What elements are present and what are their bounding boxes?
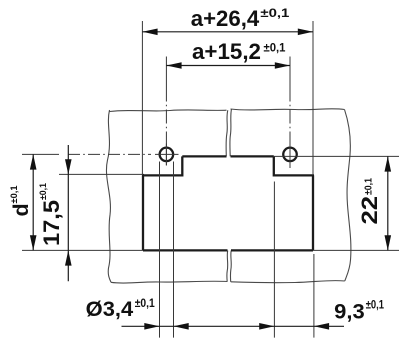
label 17,5	[38, 182, 64, 246]
panel middle break line bottom pair	[226, 251, 229, 282]
label diameter 3,4	[86, 296, 155, 321]
label d	[9, 185, 33, 217]
label 22	[357, 178, 382, 225]
panel left break line	[106, 110, 111, 282]
bottom extension line to left (for d and 17,5)	[22, 249, 143, 251]
hole tangent extension line right (for diameter)	[173, 162, 175, 338]
svg-text:±0,1: ±0,1	[38, 182, 49, 200]
extension line a+26,4 left	[141, 21, 143, 175]
svg-text:a+15,2: a+15,2	[192, 39, 261, 64]
svg-text:Ø3,4: Ø3,4	[86, 298, 134, 321]
svg-text:17,5: 17,5	[39, 200, 64, 246]
hole right crosshair	[289, 144, 291, 167]
cutout step right and lower-right top edge and right edge	[274, 156, 314, 250]
cutout bottom edge (left of break)	[143, 249, 228, 251]
label 9,3	[334, 298, 384, 324]
vertical center line left hole (dash-dot)	[165, 57, 167, 166]
cutout left edge, lower-left top edge and left step	[142, 156, 182, 250]
svg-text:±0,1: ±0,1	[264, 40, 286, 54]
svg-text:±0,1: ±0,1	[135, 296, 155, 310]
dimension line 17,5	[65, 145, 72, 281]
panel right break line	[345, 110, 351, 282]
svg-text:22: 22	[357, 196, 382, 225]
extension line of raised top edge to right (for 22)	[274, 155, 399, 157]
cutout bottom edge (right of break)	[231, 249, 313, 251]
arrows diameter 3,4	[144, 323, 188, 330]
arrows 9,3	[259, 323, 329, 330]
extension line 9,3 right (cutout right edge down)	[313, 254, 315, 338]
dimension line 22	[385, 156, 392, 250]
vertical center line right hole (dash-dot)	[289, 57, 291, 169]
hole tangent extension line left (for diameter)	[159, 162, 161, 338]
extension line 17,5 top edge leftward	[59, 173, 144, 175]
panel top edge left segment	[110, 110, 227, 112]
svg-text:±0,1: ±0,1	[366, 298, 385, 312]
hole left crosshair	[155, 144, 179, 166]
bottom dimension line (shared)	[122, 325, 345, 327]
dimension line a+15,2	[166, 62, 290, 69]
svg-text:±0,1: ±0,1	[9, 185, 20, 204]
bottom extension line to right (for 22)	[313, 249, 399, 251]
svg-text:a+26,4: a+26,4	[191, 6, 260, 31]
svg-text:9,3: 9,3	[334, 301, 365, 324]
label a+15,2	[192, 39, 286, 64]
panel bottom edge right segment	[231, 281, 345, 283]
svg-text:d: d	[9, 203, 33, 216]
dimension line d	[30, 154, 37, 250]
hole right	[283, 148, 297, 162]
panel middle break line top pair	[226, 110, 228, 156]
hole left	[160, 148, 174, 162]
extension line 9,3 left (step edge down)	[273, 182, 275, 338]
panel top edge right segment	[231, 109, 345, 110]
panel bottom edge left segment	[111, 281, 227, 283]
horizontal center line through holes (dash-dot)	[22, 153, 59, 155]
svg-text:±0,1: ±0,1	[364, 178, 375, 195]
svg-text:±0,1: ±0,1	[260, 6, 289, 20]
cutout raised top edge (right of break)	[231, 155, 274, 157]
extension line a+26,4 right	[312, 21, 314, 175]
dimension line a+26,4	[142, 29, 313, 36]
cutout raised top edge (left of break)	[182, 155, 226, 157]
label a+26,4	[191, 6, 290, 31]
